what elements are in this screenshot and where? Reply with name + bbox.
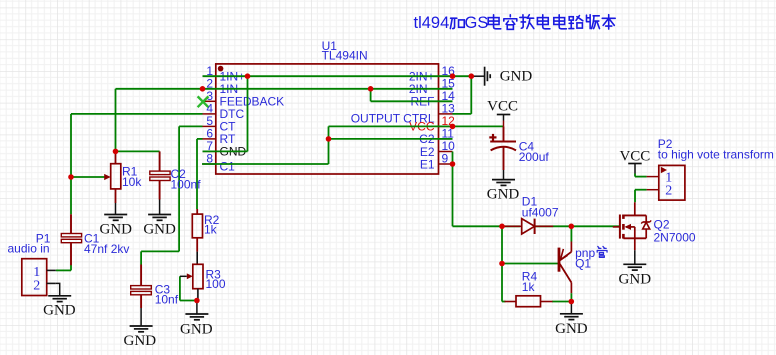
glyph 放 bbox=[520, 15, 534, 29]
P1 pin 1 stub bbox=[47, 269, 56, 271]
svg-text:1k: 1k bbox=[204, 223, 218, 237]
svg-text:GND: GND bbox=[500, 69, 533, 85]
ground under R3 bbox=[180, 301, 213, 338]
title text: tl494加GS电容放电电路版本 bbox=[414, 14, 616, 32]
wire vertical inside U1 from 1IN+ to GND pin row bbox=[203, 76, 248, 151]
capacitor C2 100nf bbox=[150, 151, 201, 199]
node A C1/DTC/R1-wiper bbox=[68, 174, 74, 180]
wire R3 wiper loop bbox=[180, 276, 197, 300]
U1 pin 9 (E1) bbox=[420, 152, 453, 172]
svg-text:GND: GND bbox=[99, 222, 132, 238]
svg-text:2: 2 bbox=[33, 278, 40, 293]
potentiometer R3 100 bbox=[180, 264, 226, 300]
glyph 电 bbox=[554, 15, 567, 29]
wire DTC to C1/R1-wiper column bbox=[71, 114, 203, 214]
svg-text:tl494: tl494 bbox=[414, 14, 450, 32]
glyph 电 bbox=[537, 15, 550, 29]
wire net 1IN-/2IN- long horizontal bbox=[116, 89, 453, 152]
resistor R2 1k bbox=[192, 209, 219, 264]
svg-text:GND: GND bbox=[124, 333, 157, 349]
svg-text:Q1: Q1 bbox=[575, 257, 591, 271]
svg-text:VCC: VCC bbox=[619, 148, 650, 164]
glyph 电 bbox=[488, 15, 501, 29]
svg-text:9: 9 bbox=[442, 152, 449, 166]
node pin9 E1 bbox=[450, 161, 456, 167]
svg-text:GS: GS bbox=[465, 14, 489, 32]
U1 pin 16 (2IN+) bbox=[409, 64, 455, 84]
ground at P1 pin 2 bbox=[43, 283, 76, 318]
svg-text:200uf: 200uf bbox=[519, 150, 550, 164]
svg-text:2N7000: 2N7000 bbox=[654, 231, 696, 245]
glyph 版 bbox=[586, 15, 599, 29]
Q2 body diode bbox=[645, 215, 647, 222]
ground under Q1 bbox=[555, 302, 588, 337]
wire Q1 base / R4 loop bbox=[502, 226, 571, 301]
node pin2/1IN- bbox=[200, 86, 206, 92]
node Q1 bottom / R4 / GND bbox=[569, 299, 575, 305]
wire E1/E2 down to D1 row bbox=[453, 152, 620, 227]
ground under C4 bbox=[487, 170, 520, 203]
U1 pin 11 (C2) bbox=[419, 127, 454, 147]
node B R1-top bbox=[113, 149, 119, 155]
glyph 加 bbox=[450, 18, 464, 28]
glyph 管 of pnp管 bbox=[597, 246, 607, 257]
connector P2 (to high vote transform) bbox=[647, 137, 774, 200]
U1 pin 10 (E2) bbox=[420, 139, 455, 159]
U1 pin 6 (RT) bbox=[203, 127, 236, 147]
svg-text:GND: GND bbox=[43, 303, 76, 319]
capacitor C4 200uf polarized bbox=[489, 126, 549, 170]
node D1 cathode / Q1 top bbox=[569, 224, 575, 230]
svg-text:1k: 1k bbox=[522, 280, 536, 294]
svg-text:100nf: 100nf bbox=[171, 178, 202, 192]
capacitor C3 10nf bbox=[131, 251, 179, 308]
svg-text:47nf 2kv: 47nf 2kv bbox=[84, 242, 129, 256]
wire RT to R2 bbox=[197, 139, 203, 209]
diode D1 uf4007 bbox=[502, 195, 559, 235]
svg-text:Q2: Q2 bbox=[654, 218, 670, 232]
svg-text:10nf: 10nf bbox=[155, 293, 179, 307]
U1 pin 4 (DTC) bbox=[203, 102, 245, 122]
svg-text:GND: GND bbox=[555, 321, 588, 337]
resistor R4 1k bbox=[505, 270, 553, 307]
node 2IN-/REF branch bbox=[368, 86, 374, 92]
transistor Q2 2N7000 nmos bbox=[613, 202, 696, 250]
wire P2 pin2 to Q2 drain bbox=[635, 190, 647, 203]
svg-text:10k: 10k bbox=[122, 175, 142, 189]
node pin16 bbox=[450, 73, 456, 79]
svg-text:audio in: audio in bbox=[8, 241, 50, 255]
svg-text:VCC: VCC bbox=[487, 99, 518, 115]
wire P1 pin1 to C1 bbox=[56, 265, 71, 270]
svg-text:100: 100 bbox=[206, 277, 226, 291]
U1 pin 7 (GND) bbox=[203, 139, 247, 159]
IC U1 TL494IN body bbox=[216, 39, 439, 174]
svg-text:GND: GND bbox=[143, 222, 176, 238]
node R3 bottom bbox=[194, 298, 200, 304]
transistor Q1 pnp bbox=[559, 226, 607, 301]
svg-text:E1: E1 bbox=[420, 157, 435, 171]
U1 pin 14 (REF) bbox=[411, 89, 456, 109]
connector P1 (audio in) bbox=[8, 232, 56, 296]
U1 pin 5 (CT) bbox=[203, 114, 237, 134]
potentiometer R1 10k bbox=[104, 151, 142, 203]
svg-text:C1: C1 bbox=[220, 159, 236, 173]
VCC power flag at P2 bbox=[619, 148, 650, 176]
svg-text:uf4007: uf4007 bbox=[522, 206, 559, 220]
node J1 1IN+ bbox=[245, 73, 251, 79]
wire C1 pin8 net to C2/VCC pins bbox=[202, 126, 504, 164]
no-connect X on pin 3 bbox=[198, 96, 209, 107]
U1 pin 15 (2IN-) bbox=[409, 76, 455, 96]
node Q1 base/R4 bbox=[499, 261, 505, 267]
node J2 top-right bbox=[469, 73, 475, 79]
svg-text:GND: GND bbox=[487, 187, 520, 203]
svg-text:TL494IN: TL494IN bbox=[322, 49, 368, 63]
node pin12 VCC bbox=[450, 124, 456, 130]
wire net 1IN+/2IN+/GND top horizontal bbox=[203, 75, 472, 77]
glyph 本 bbox=[602, 15, 615, 29]
U1 pin 13 (OUTPUT CTRL) bbox=[351, 102, 455, 126]
ground under R1 bbox=[99, 203, 132, 238]
U1 pin 1 (1IN+) bbox=[203, 64, 246, 84]
wire node R1-top to C2 bbox=[116, 150, 160, 152]
capacitor C1 47nf 2kv bbox=[61, 214, 129, 265]
ground symbol right of U1 (rotated) bbox=[471, 67, 532, 86]
glyph 容 bbox=[504, 15, 517, 30]
ground under C3 bbox=[124, 308, 157, 349]
wire branch to REF bbox=[371, 89, 453, 102]
ground under Q2 bbox=[619, 250, 652, 287]
wire VCC to P2 pin1 bbox=[635, 176, 647, 178]
P1 pin 2 stub bbox=[47, 282, 56, 284]
svg-text:2: 2 bbox=[665, 184, 672, 199]
wire R1 wiper bbox=[71, 176, 105, 178]
U1 pin-1 marker dot bbox=[218, 66, 224, 72]
glyph 路 bbox=[569, 16, 583, 29]
ground under C2 bbox=[143, 200, 176, 238]
svg-text:GND: GND bbox=[180, 321, 213, 337]
node D1 anode / Q1 base branch bbox=[499, 224, 505, 230]
U1 pin 12 (VCC) bbox=[409, 114, 455, 134]
U1 pin 8 (C1) bbox=[203, 152, 236, 174]
svg-text:to high vote transform: to high vote transform bbox=[658, 148, 774, 162]
wire CT to C3 bbox=[141, 126, 202, 251]
U1 pin 3 (FEEDBACK) bbox=[203, 89, 285, 109]
node C1/C2 riser bbox=[326, 136, 332, 142]
svg-text:GND: GND bbox=[619, 271, 652, 287]
wire OUTPUT CTRL to top net bbox=[453, 76, 472, 114]
U1 pin 2 (1IN-) bbox=[203, 76, 246, 96]
VCC power flag mid bbox=[487, 99, 518, 127]
